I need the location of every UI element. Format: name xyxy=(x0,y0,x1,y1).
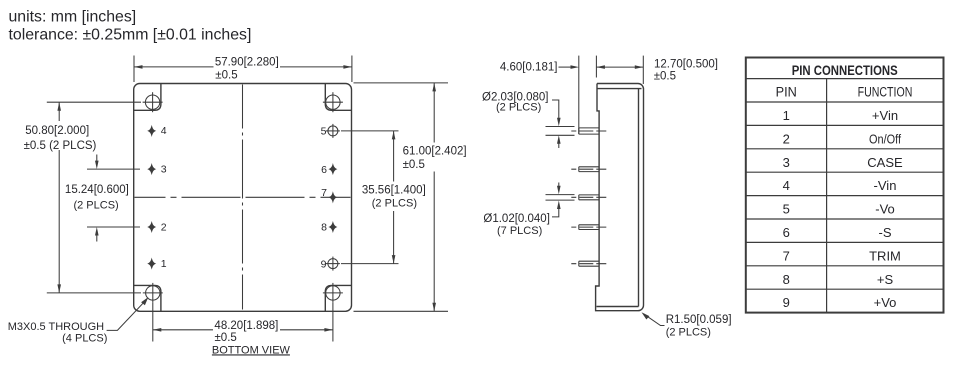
svg-text:CASE: CASE xyxy=(867,155,903,170)
side view case inner right line xyxy=(638,89,640,307)
dimension 15.24 left xyxy=(65,155,140,242)
svg-text:±0.5: ±0.5 xyxy=(654,70,676,82)
mounting ear bottom-right xyxy=(325,285,351,311)
dimension 57.90 top xyxy=(134,56,352,83)
svg-text:PIN CONNECTIONS: PIN CONNECTIONS xyxy=(792,63,898,78)
pin 1 xyxy=(148,258,166,270)
pin 6 xyxy=(321,164,336,176)
side pin stub 5 xyxy=(571,261,607,266)
svg-text:35.56[1.400]: 35.56[1.400] xyxy=(362,185,426,197)
pin 9 xyxy=(321,257,340,271)
vertical centerline xyxy=(242,85,244,311)
svg-text:-S: -S xyxy=(879,225,892,240)
svg-text:On/Off: On/Off xyxy=(869,131,901,146)
dimension dia 1.02 xyxy=(483,183,574,237)
pin connections table xyxy=(746,58,944,313)
svg-text:(2 PLCS): (2 PLCS) xyxy=(496,102,541,114)
svg-text:+Vo: +Vo xyxy=(874,295,897,310)
dimension 61.00 right xyxy=(354,83,467,311)
svg-text:7: 7 xyxy=(783,248,790,263)
dimension 48.20 bottom xyxy=(153,303,333,344)
side pin stub 2 xyxy=(571,167,607,172)
module body outline (bottom view) xyxy=(134,84,352,312)
side view pin tip extension line xyxy=(578,56,580,135)
svg-text:±0.5 (2 PLCS): ±0.5 (2 PLCS) xyxy=(24,140,97,152)
svg-text:Ø1.02[0.040]: Ø1.02[0.040] xyxy=(483,213,550,225)
pin 4 xyxy=(148,125,166,137)
svg-text:+S: +S xyxy=(877,272,894,287)
pin 2 xyxy=(148,221,166,233)
side view case right extension line xyxy=(642,56,644,84)
horizontal centerline xyxy=(135,196,351,198)
dimension 35.56 right xyxy=(341,131,426,264)
svg-text:12.70[0.500]: 12.70[0.500] xyxy=(654,58,718,70)
mounting ear top-right xyxy=(325,84,351,111)
svg-text:3: 3 xyxy=(161,163,167,175)
side pin stub 1 xyxy=(571,128,607,134)
pin 3 xyxy=(148,163,166,175)
pin 8 xyxy=(321,222,336,234)
svg-text:7: 7 xyxy=(321,187,327,199)
svg-text:(2 PLCS): (2 PLCS) xyxy=(666,326,711,338)
svg-text:57.90[2.280]: 57.90[2.280] xyxy=(215,57,279,69)
note M3X0.5 xyxy=(8,297,149,344)
mounting hole bottom-left xyxy=(143,283,163,303)
svg-text:15.24[0.600]: 15.24[0.600] xyxy=(65,184,129,196)
mounting ear bottom-left xyxy=(134,285,161,311)
svg-text:5: 5 xyxy=(783,202,790,217)
svg-text:(7 PLCS): (7 PLCS) xyxy=(497,225,542,237)
svg-text:+Vin: +Vin xyxy=(872,108,898,123)
svg-text:±0.5: ±0.5 xyxy=(215,332,237,344)
mounting hole bottom-right xyxy=(323,283,343,303)
side view case left extension line xyxy=(595,56,597,78)
svg-text:8: 8 xyxy=(783,272,790,287)
svg-text:50.80[2.000]: 50.80[2.000] xyxy=(25,125,89,137)
svg-text:1: 1 xyxy=(161,258,167,270)
svg-text:8: 8 xyxy=(321,222,327,234)
svg-text:PIN: PIN xyxy=(776,84,797,99)
svg-text:tolerance: ±0.25mm [±0.01 inch: tolerance: ±0.25mm [±0.01 inches] xyxy=(9,27,252,44)
svg-text:BOTTOM VIEW: BOTTOM VIEW xyxy=(212,344,291,356)
svg-text:-Vo: -Vo xyxy=(875,202,895,217)
svg-text:(2 PLCS): (2 PLCS) xyxy=(372,198,417,210)
svg-text:4: 4 xyxy=(161,125,167,137)
pin 5 xyxy=(321,124,340,138)
svg-text:TRIM: TRIM xyxy=(869,248,901,263)
side pin stub 3 xyxy=(571,195,607,200)
svg-text:2: 2 xyxy=(783,131,790,146)
svg-text:3: 3 xyxy=(783,155,790,170)
svg-text:6: 6 xyxy=(321,164,327,176)
svg-text:-Vin: -Vin xyxy=(874,178,897,193)
side pin stub 4 xyxy=(571,225,607,230)
side view case inner bottom line xyxy=(597,306,639,308)
svg-text:4.60[0.181]: 4.60[0.181] xyxy=(500,62,558,74)
note R1.50 xyxy=(642,312,732,338)
side view case outline xyxy=(596,84,644,311)
side view case inner top line xyxy=(597,88,642,90)
mounting hole top-right xyxy=(323,92,343,112)
svg-text:2: 2 xyxy=(161,221,167,233)
svg-text:5: 5 xyxy=(321,126,327,138)
svg-text:9: 9 xyxy=(783,295,790,310)
mounting hole top-left xyxy=(143,92,163,112)
svg-text:61.00[2.402]: 61.00[2.402] xyxy=(403,145,467,157)
mounting ear top-left xyxy=(134,84,161,111)
svg-text:units: mm [inches]: units: mm [inches] xyxy=(9,9,137,26)
dimension 4.60 xyxy=(500,62,579,74)
svg-text:(2 PLCS): (2 PLCS) xyxy=(73,200,118,212)
dimension 50.80 left xyxy=(24,102,141,293)
svg-text:48.20[1.898]: 48.20[1.898] xyxy=(214,320,278,332)
svg-text:6: 6 xyxy=(783,225,790,240)
svg-text:R1.50[0.059]: R1.50[0.059] xyxy=(666,314,732,326)
pin 7 xyxy=(321,187,336,202)
svg-text:1: 1 xyxy=(783,108,790,123)
svg-text:±0.5: ±0.5 xyxy=(215,70,237,82)
svg-text:4: 4 xyxy=(783,178,790,193)
dimension dia 2.03 xyxy=(482,92,575,149)
svg-text:9: 9 xyxy=(321,258,327,270)
svg-text:FUNCTION: FUNCTION xyxy=(858,84,913,99)
svg-text:±0.5: ±0.5 xyxy=(403,159,425,171)
dimension 12.70 xyxy=(596,58,718,82)
svg-text:M3X0.5 THROUGH: M3X0.5 THROUGH xyxy=(8,321,104,333)
svg-text:(4 PLCS): (4 PLCS) xyxy=(62,333,107,345)
